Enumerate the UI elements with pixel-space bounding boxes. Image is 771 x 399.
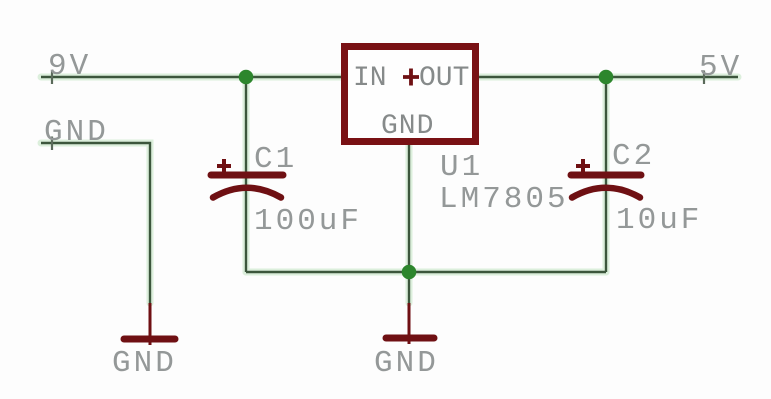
label cross 5V [703,71,705,85]
ground symbol left [124,303,175,345]
ground symbol center [386,303,434,344]
op-amp U1 regulator box [345,47,476,142]
junction dot node 5V/C2 [599,70,614,85]
wire junction to GND symbol [408,272,410,303]
svg-text:IN: IN [353,63,387,94]
svg-text:GND: GND [381,111,434,142]
wire GND pin of U1 [408,145,410,272]
svg-text:OUT: OUT [419,63,469,94]
svg-text:C1: C1 [254,142,297,177]
svg-text:U1: U1 [440,150,483,185]
wire 9V top left [41,76,341,78]
wire halo group [41,77,738,303]
wire C2 branch [605,77,607,272]
capacitor C1 [211,159,283,198]
wire C1 branch [245,77,247,272]
label cross GND left [51,137,53,151]
svg-text:9V: 9V [48,49,91,84]
svg-text:10uF: 10uF [616,203,702,238]
junction dot bottom GND bus [402,265,417,280]
wire OUT to 5V [479,76,738,78]
capacitor C2 [571,159,641,198]
svg-text:C2: C2 [612,139,655,174]
svg-text:5V: 5V [699,50,742,85]
svg-text:GND: GND [112,346,177,381]
wire GND net left [41,143,150,303]
pin polarity + mark [403,69,419,86]
label cross 9V [51,71,53,85]
svg-text:GND: GND [44,115,109,150]
junction dot node 9V/C1 [239,70,254,85]
svg-text:LM7805: LM7805 [439,182,569,217]
wire bottom bus [246,271,606,273]
svg-text:GND: GND [374,346,439,381]
svg-text:100uF: 100uF [254,204,362,239]
